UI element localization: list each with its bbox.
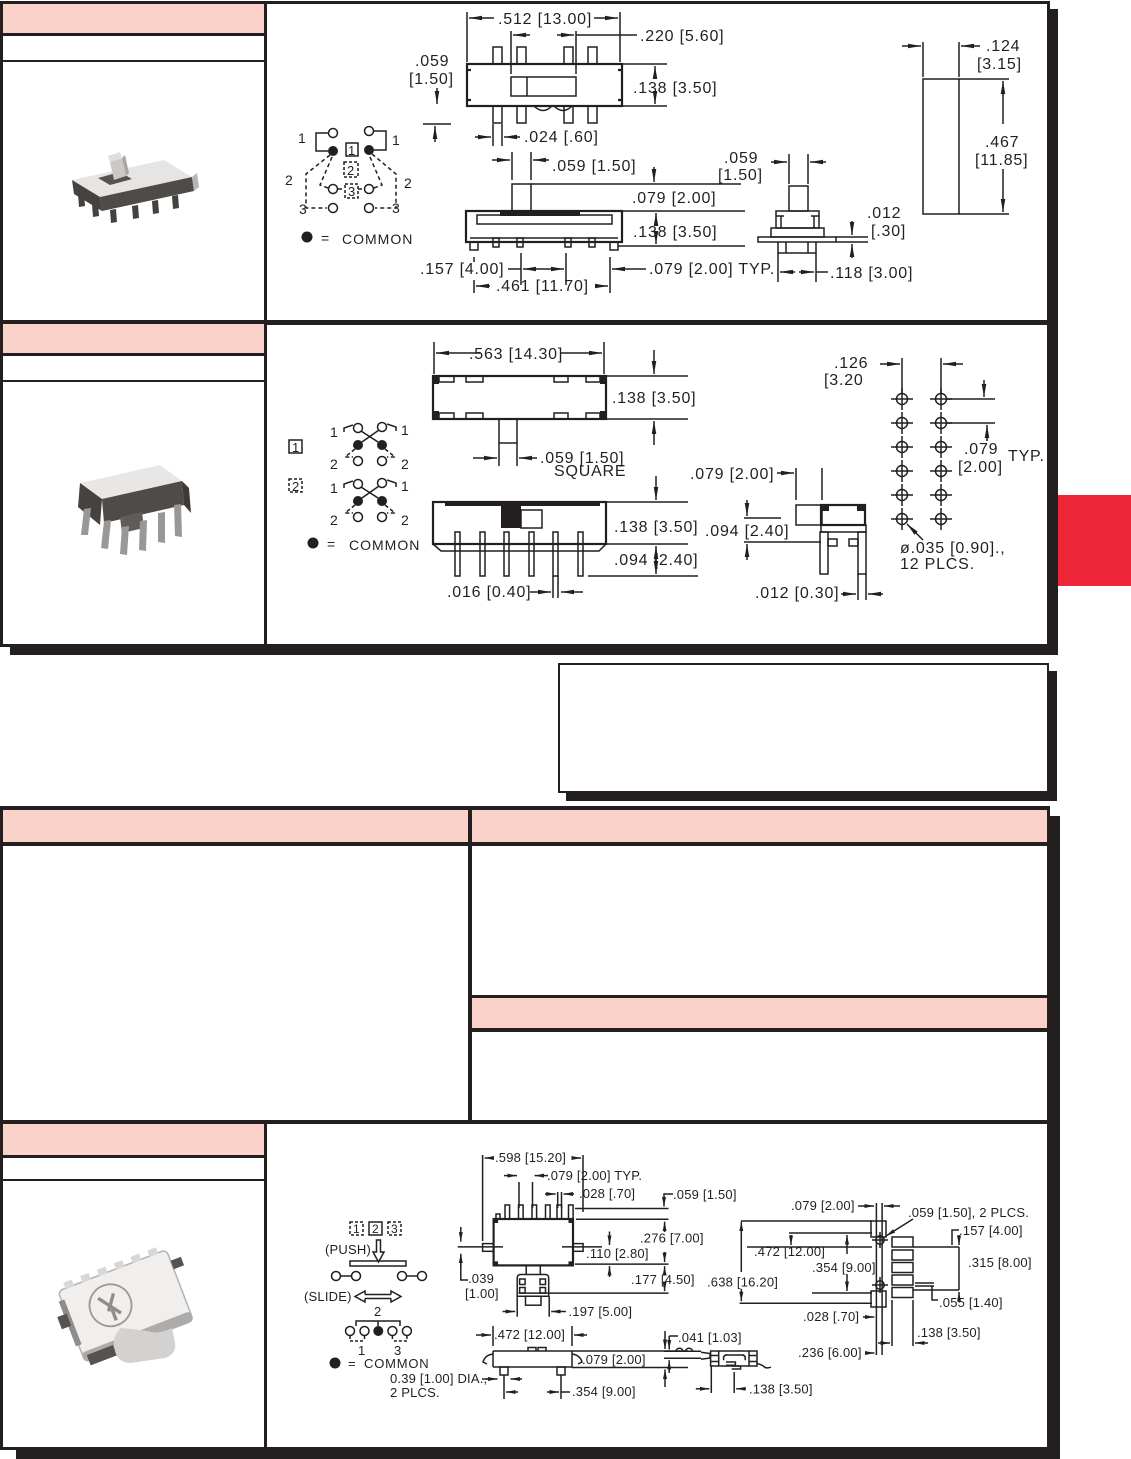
svg-text:.157 [4.00]: .157 [4.00] <box>959 1223 1023 1238</box>
svg-text:COMMON: COMMON <box>364 1356 429 1371</box>
svg-text:.138 [3.50]: .138 [3.50] <box>612 390 696 407</box>
svg-text:1: 1 <box>401 478 410 494</box>
svg-text:.467: .467 <box>985 134 1019 151</box>
svg-text:1: 1 <box>330 480 339 496</box>
svg-text:.016 [0.40]: .016 [0.40] <box>447 584 531 601</box>
svg-text:2: 2 <box>330 456 339 472</box>
svg-text:.079 [2.00] TYP.: .079 [2.00] TYP. <box>547 1168 642 1183</box>
svg-text:0.39 [1.00] DIA.,: 0.39 [1.00] DIA., <box>390 1371 487 1386</box>
svg-text:.124: .124 <box>986 38 1020 55</box>
svg-text:.220 [5.60]: .220 [5.60] <box>640 28 724 45</box>
svg-text:.354 [9.00]: .354 [9.00] <box>812 1260 876 1275</box>
svg-text:2: 2 <box>401 512 410 528</box>
svg-text:.157 [4.00]: .157 [4.00] <box>420 261 504 278</box>
svg-text:.094 [2.40]: .094 [2.40] <box>614 552 698 569</box>
svg-text:.079: .079 <box>964 441 998 458</box>
svg-text:(PUSH): (PUSH) <box>325 1242 371 1257</box>
svg-text:.079 [2.00]: .079 [2.00] <box>791 1198 855 1213</box>
svg-text:=: = <box>327 536 336 552</box>
svg-text:1: 1 <box>353 1222 360 1236</box>
svg-text:.598 [15.20]: .598 [15.20] <box>495 1150 566 1165</box>
svg-text:TYP.: TYP. <box>1008 448 1045 465</box>
svg-text:.138 [3.50]: .138 [3.50] <box>749 1382 813 1397</box>
svg-text:[1.50]: [1.50] <box>718 167 763 184</box>
svg-text:3: 3 <box>299 201 308 217</box>
svg-text:[1.00]: [1.00] <box>465 1286 499 1301</box>
svg-text:.055 [1.40]: .055 [1.40] <box>939 1295 1003 1310</box>
svg-text:2: 2 <box>285 172 294 188</box>
svg-text:COMMON: COMMON <box>349 537 420 553</box>
svg-text:2: 2 <box>372 1222 379 1236</box>
svg-text:1: 1 <box>330 424 339 440</box>
svg-text:.461 [11.70]: .461 [11.70] <box>496 278 589 295</box>
svg-text:2: 2 <box>347 163 355 178</box>
svg-text:2: 2 <box>404 175 413 191</box>
svg-text:[1.50]: [1.50] <box>409 71 454 88</box>
svg-text:.138 [3.50]: .138 [3.50] <box>917 1325 981 1340</box>
svg-text:.563 [14.30]: .563 [14.30] <box>469 346 563 363</box>
svg-text:.276 [7.00]: .276 [7.00] <box>640 1231 704 1246</box>
svg-text:.315 [8.00]: .315 [8.00] <box>968 1255 1032 1270</box>
svg-text:.110 [2.80]: .110 [2.80] <box>586 1246 649 1261</box>
svg-text:3: 3 <box>348 184 356 199</box>
svg-text:.138 [3.50]: .138 [3.50] <box>633 224 717 241</box>
svg-text:.079 [2.00] TYP.: .079 [2.00] TYP. <box>649 261 775 278</box>
svg-text:.138 [3.50]: .138 [3.50] <box>614 519 698 536</box>
svg-text:.028 [.70]: .028 [.70] <box>803 1309 859 1324</box>
svg-text:.012 [0.30]: .012 [0.30] <box>755 585 839 602</box>
svg-text:2: 2 <box>292 479 300 494</box>
svg-text:.059 [1.50]: .059 [1.50] <box>673 1187 737 1202</box>
svg-text:[3.15]: [3.15] <box>977 56 1022 73</box>
svg-text:1: 1 <box>292 440 300 455</box>
svg-text:[2.00]: [2.00] <box>958 459 1003 476</box>
svg-text:.012: .012 <box>867 205 901 222</box>
svg-text:.126: .126 <box>834 355 868 372</box>
svg-text:.638 [16.20]: .638 [16.20] <box>707 1275 778 1290</box>
svg-text:.028 [.70]: .028 [.70] <box>579 1186 635 1201</box>
svg-text:3: 3 <box>391 1222 398 1236</box>
svg-text:.177 [4.50]: .177 [4.50] <box>631 1272 695 1287</box>
svg-text:.079 [2.00]: .079 [2.00] <box>632 190 716 207</box>
svg-text:1: 1 <box>401 422 410 438</box>
svg-text:[3.20: [3.20 <box>824 372 864 389</box>
svg-text:.094 [2.40]: .094 [2.40] <box>705 523 789 540</box>
svg-text:.041 [1.03]: .041 [1.03] <box>678 1330 742 1345</box>
svg-text:.079 [2.00]: .079 [2.00] <box>690 466 774 483</box>
svg-text:[.30]: [.30] <box>871 223 906 240</box>
svg-text:.197 [5.00]: .197 [5.00] <box>569 1304 633 1319</box>
svg-text:.059: .059 <box>415 53 449 70</box>
svg-text:.236 [6.00]: .236 [6.00] <box>798 1345 862 1360</box>
svg-text:[11.85]: [11.85] <box>975 152 1028 169</box>
svg-text:.118 [3.00]: .118 [3.00] <box>830 265 913 282</box>
svg-text:2 PLCS.: 2 PLCS. <box>390 1385 440 1400</box>
svg-text:COMMON: COMMON <box>342 231 413 247</box>
svg-text:.138 [3.50]: .138 [3.50] <box>633 80 717 97</box>
svg-text:.354 [9.00]: .354 [9.00] <box>572 1384 636 1399</box>
svg-text:=: = <box>321 230 330 246</box>
svg-text:1: 1 <box>348 143 356 158</box>
svg-text:12 PLCS.: 12 PLCS. <box>900 556 975 573</box>
svg-text:ø.035 [0.90].,: ø.035 [0.90]., <box>900 540 1005 557</box>
svg-text:=: = <box>348 1356 356 1371</box>
svg-text:2: 2 <box>330 512 339 528</box>
svg-text:SQUARE: SQUARE <box>554 463 626 480</box>
svg-text:.059 [1.50]: .059 [1.50] <box>552 158 636 175</box>
svg-text:.039: .039 <box>468 1271 494 1286</box>
svg-text:1: 1 <box>392 132 401 148</box>
svg-text:.079 [2.00]: .079 [2.00] <box>582 1352 646 1367</box>
svg-text:(SLIDE): (SLIDE) <box>304 1289 352 1304</box>
svg-text:.024 [.60]: .024 [.60] <box>524 129 599 146</box>
svg-text:.472 [12.00]: .472 [12.00] <box>494 1327 565 1342</box>
svg-text:1: 1 <box>298 130 307 146</box>
svg-text:2: 2 <box>401 456 410 472</box>
svg-text:.059 [1.50], 2 PLCS.: .059 [1.50], 2 PLCS. <box>908 1205 1029 1220</box>
svg-text:.512 [13.00]: .512 [13.00] <box>498 11 592 28</box>
svg-text:.059: .059 <box>724 150 758 167</box>
svg-text:2: 2 <box>374 1304 381 1319</box>
